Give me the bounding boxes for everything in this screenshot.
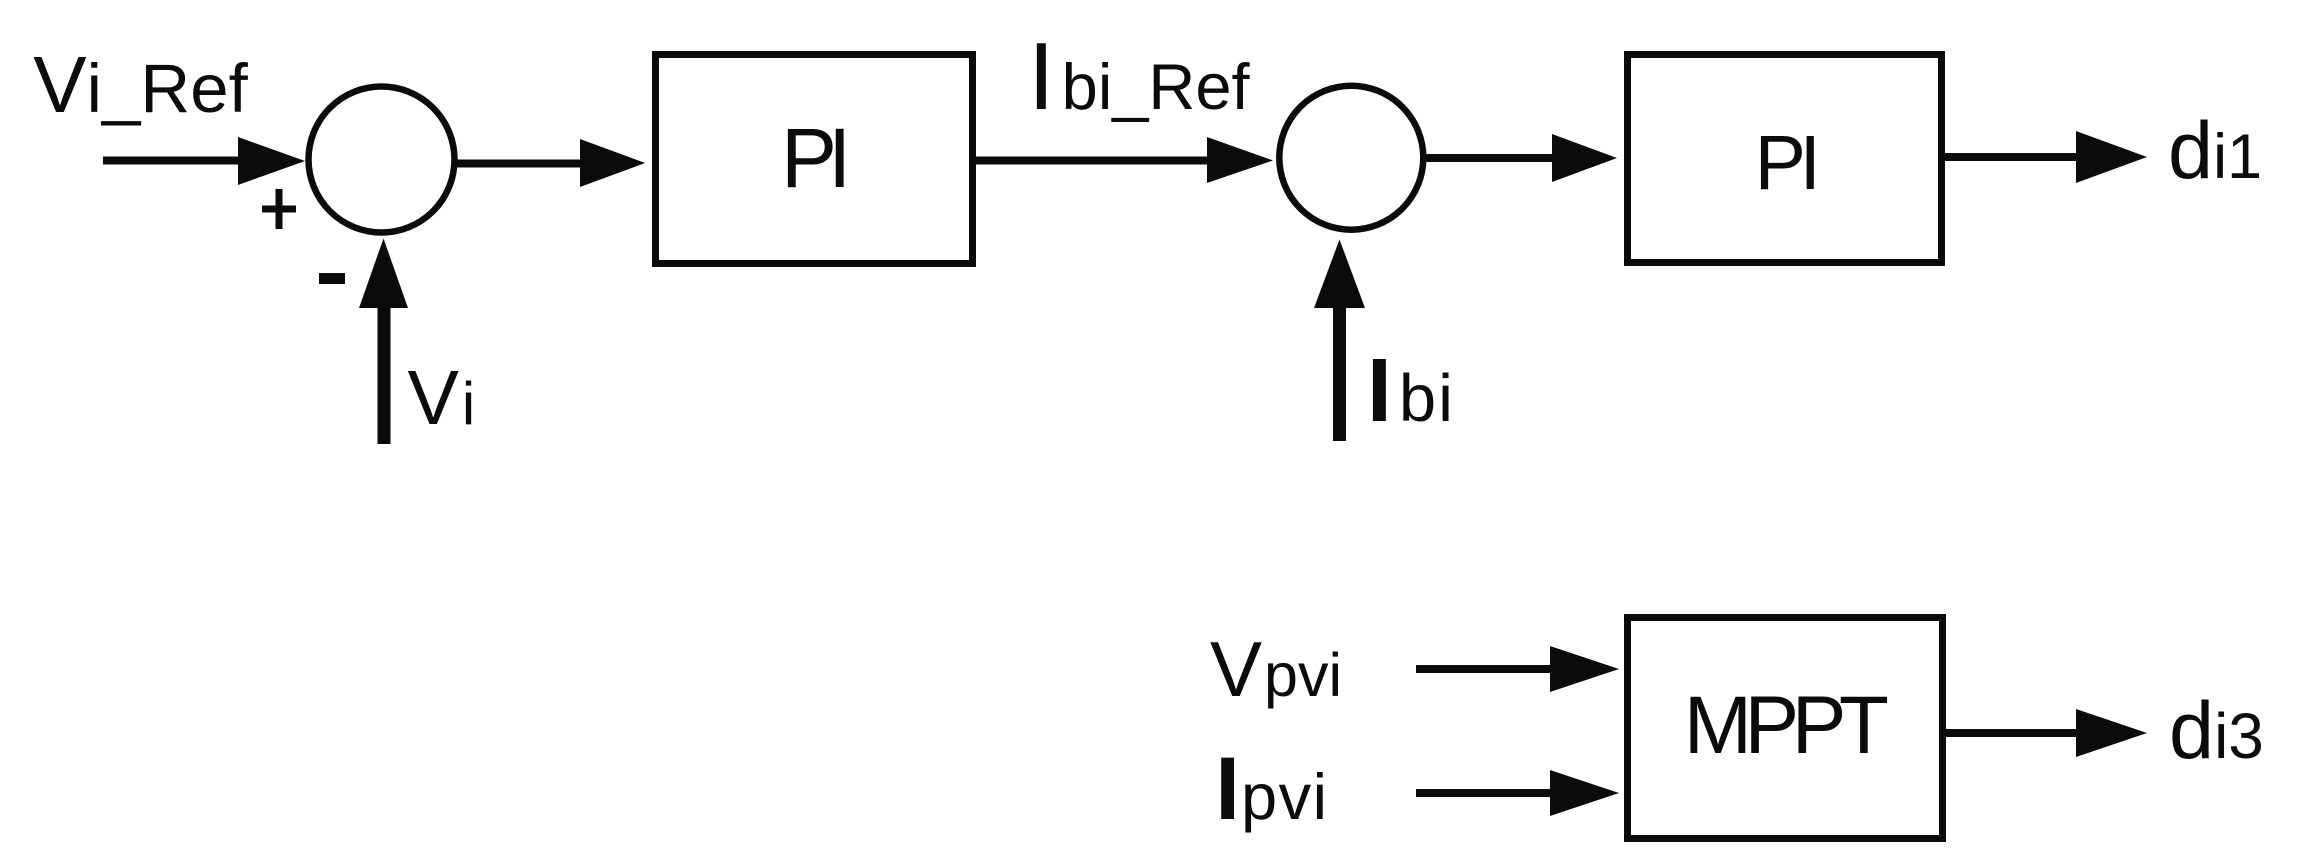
svg-text:di1: di1 xyxy=(2168,106,2262,196)
svg-text:Ipvi: Ipvi xyxy=(1215,738,1328,838)
svg-text:MPPT: MPPT xyxy=(1684,680,1888,771)
svg-text:Vi_Ref: Vi_Ref xyxy=(33,40,248,129)
svg-text:Ibi_Ref: Ibi_Ref xyxy=(1028,23,1251,130)
svg-text:PI: PI xyxy=(1755,120,1815,206)
svg-text:di3: di3 xyxy=(2169,686,2264,776)
svg-text:Ibi: Ibi xyxy=(1367,341,1455,441)
svg-text:Vpvi: Vpvi xyxy=(1210,625,1342,713)
svg-text:PI: PI xyxy=(781,111,844,205)
svg-text:Vi: Vi xyxy=(408,355,476,441)
